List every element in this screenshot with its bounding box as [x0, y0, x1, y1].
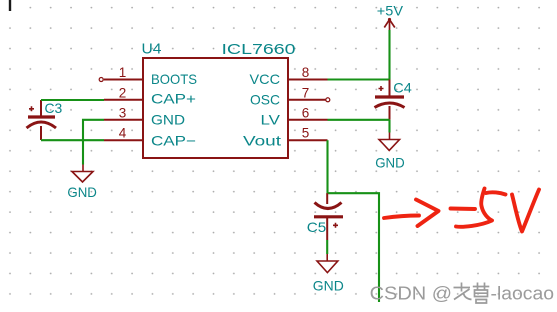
svg-text:-laocao: -laocao: [491, 283, 555, 304]
svg-text:C4: C4: [393, 79, 412, 95]
svg-text:3: 3: [119, 105, 127, 120]
svg-text:C3: C3: [45, 100, 63, 116]
svg-text:ICL7660: ICL7660: [222, 41, 296, 58]
svg-text:1: 1: [119, 65, 127, 80]
svg-text:4: 4: [119, 126, 127, 141]
wire pin8 to node: [328, 78, 390, 80]
pin 8 VCC: [250, 65, 328, 87]
pin 4 CAP-: [104, 126, 196, 149]
svg-text:8: 8: [302, 65, 310, 80]
capacitor C5 (polarized, flipped): [307, 193, 343, 240]
power +5V: [377, 3, 403, 30]
pin 5 Vout: [243, 126, 328, 149]
IC U4 ICL7660 body rectangle: [143, 58, 288, 158]
ground left: [67, 165, 97, 200]
svg-text:BOOTS: BOOTS: [151, 71, 197, 87]
svg-text:U4: U4: [142, 41, 162, 58]
pin 2 CAP+: [104, 85, 196, 106]
capacitor C4 (polarized): [375, 79, 413, 120]
wire pin2 to C3 top: [41, 99, 104, 101]
cursor tick top-left: [9, 0, 11, 11]
wire pin6 to C4 bottom node: [328, 119, 390, 121]
svg-text:GND: GND: [67, 184, 97, 200]
svg-text:5: 5: [302, 126, 310, 141]
svg-text:CSDN @: CSDN @: [370, 283, 453, 304]
wire +5V down to VCC node: [388, 30, 390, 80]
svg-text:Vout: Vout: [243, 132, 281, 148]
wire node down to ground: [388, 120, 390, 133]
watermark CJK glyphs: [454, 283, 490, 304]
svg-text:C5: C5: [307, 219, 327, 235]
svg-text:+5V: +5V: [377, 3, 403, 18]
pin 3 GND: [104, 105, 185, 127]
svg-text:7: 7: [302, 85, 310, 100]
svg-text:6: 6: [302, 105, 310, 120]
svg-text:LV: LV: [261, 111, 281, 127]
annotation -5V (red handwriting): [451, 189, 540, 232]
capacitor C3 (polarized): [27, 100, 63, 140]
wire C5 to ground: [326, 240, 328, 254]
wire pin3 to GND: [83, 120, 104, 165]
svg-text:VCC: VCC: [250, 71, 281, 87]
svg-text:GND: GND: [151, 111, 185, 127]
ground bottom (under C5): [313, 254, 344, 294]
svg-text:GND: GND: [375, 154, 405, 170]
svg-text:OSC: OSC: [250, 91, 280, 107]
svg-text:2: 2: [119, 85, 127, 100]
svg-text:CAP−: CAP−: [151, 133, 196, 149]
svg-text:GND: GND: [313, 278, 344, 294]
wire pin5 down and right to -5V rail: [328, 140, 380, 302]
pin 6 LV: [261, 105, 328, 127]
pin 1 BOOST: [99, 65, 197, 87]
pin 7 OSC: [250, 85, 330, 107]
watermark CSDN @laocao: [370, 283, 554, 304]
svg-text:CAP+: CAP+: [151, 91, 196, 107]
wire pin4 to C3 bottom: [41, 139, 104, 141]
ground right (under C4): [375, 133, 405, 171]
annotation arrow (red handwriting): [384, 200, 439, 227]
